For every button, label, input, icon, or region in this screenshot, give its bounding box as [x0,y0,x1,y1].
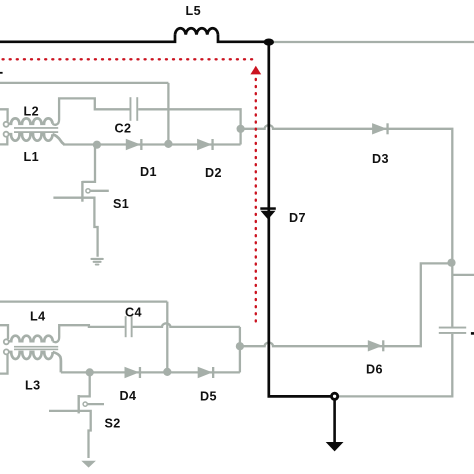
capacitor Co (output) [439,327,466,329]
wire: L3 right riser down to diode rail [53,352,61,372]
svg-text:L4: L4 [30,310,46,324]
wire: load stub right edge [452,274,474,276]
capacitor C4 [125,316,127,337]
current path red dotted horizontal [3,58,257,60]
current path red arrow head [250,66,261,75]
diode D7 (black) [260,207,276,219]
wire: right vertical to output capacitor [451,263,453,327]
svg-text:D6: D6 [366,363,383,377]
junction node L1/D1/S1 [93,141,101,149]
junction node L3/D4/S2 [86,368,94,376]
svg-text:S1: S1 [113,197,129,211]
junction node lower output [236,342,244,350]
ground arrow (black) [333,400,336,443]
wire: L1 right connector to diode rail [53,134,65,144]
transformer core lower [14,346,58,350]
wire: S2 drain [79,374,90,396]
svg-text:C2: C2 [115,122,132,136]
svg-text:L1: L1 [24,150,40,164]
wire: vertical from upper rail to D1/D2 node [167,83,169,144]
node input bus junction (black dot) [264,39,274,46]
wire: S1 source and left stub [53,198,97,257]
wire: black vertical bus [269,42,331,396]
junction node upper output [237,125,245,133]
diode D3 [372,123,387,134]
terminal ring L2 [4,122,9,127]
wire: vertical through lower output node [239,327,241,373]
inductor L1 (coupled winding bottom) [9,134,53,141]
wire: S1 gate lead [90,190,109,192]
junction node output cap [447,259,455,267]
junction node D4/D5 [163,368,171,376]
wire: L4 left terminal [0,325,8,339]
svg-text:D4: D4 [120,389,137,403]
svg-text:L3: L3 [25,379,41,393]
capacitor C2 [130,97,132,121]
terminal ring L4 [4,339,9,344]
wire: output rail lower with hump over bus [240,263,452,346]
diode D4 [125,367,140,378]
inductor L2 (coupled winding top) [9,118,53,123]
svg-text:D2: D2 [205,166,222,180]
wire: diode rail D4 D5 [61,371,240,373]
diode D1 [126,139,141,150]
svg-text:L2: L2 [24,104,40,118]
wire: C2 right plate to corner and down to output node [138,109,240,144]
diode D6 [368,340,383,351]
wire: vertical from lower rail to D4/D5 node [166,302,168,372]
inductor L4 (coupled winding top) [9,336,53,342]
mosfet S1 [81,181,83,202]
ground S1 [90,258,103,266]
wire: input top rail (black) with inductor L5 [0,35,269,42]
svg-text:L5: L5 [186,4,202,18]
wire: output rail upper with hump over bus [241,125,453,263]
wire: L1 left terminal [0,137,7,145]
wire: capacitor bottom to ground rail [339,334,452,397]
wire: L2 left terminal [0,109,8,121]
wire: lower rail [0,300,167,302]
wire: L3 left terminal [0,354,8,373]
wire: diode rail D1 D2 [63,143,241,145]
wire: L4 right riser with step to C4 [53,325,125,342]
wire: C4 right plate with hump over vertical, to corner [133,323,240,327]
svg-text:C4: C4 [125,306,142,320]
inductor L5 [175,28,218,34]
current path red dotted vertical [255,79,257,325]
junction node D1/D2 [164,140,172,148]
mosfet S2 [78,395,80,413]
svg-text:S2: S2 [105,417,121,431]
terminal ring L3 [4,349,9,354]
wire: L2 right riser with step to C2 [53,98,130,124]
wire: S1 drain [82,146,95,182]
wire: gray rail right of node to edge [269,41,474,43]
node ground ring (black) [332,393,338,399]
terminal ring L1 [4,132,9,137]
clipped label mark left edge [0,72,3,74]
svg-text:D5: D5 [200,390,217,404]
inductor L3 (coupled winding bottom) [9,352,53,359]
svg-text:D7: D7 [289,211,306,225]
svg-text:D3: D3 [372,152,389,166]
diode D2 [197,139,212,150]
wire: upper gray rail [0,82,168,84]
wire: S2 gate lead [87,403,104,405]
diode D5 [198,367,213,378]
wire: S2 source and left stub [49,411,91,458]
transformer core upper [14,127,58,133]
ground S2 [81,461,96,468]
clipped label mark right edge [471,332,474,335]
svg-text:D1: D1 [140,165,157,179]
